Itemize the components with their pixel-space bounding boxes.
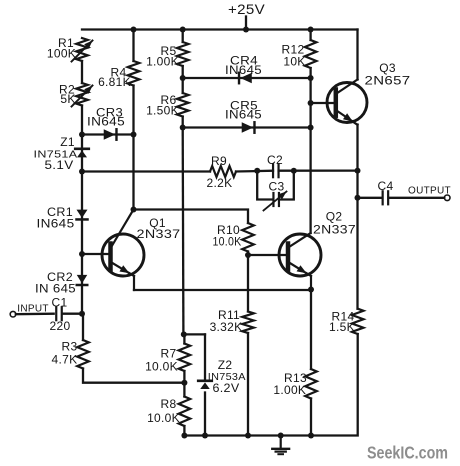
wire R13 to bottom rail	[310, 399, 312, 436]
wire Z1 bottom to R9	[82, 170, 210, 172]
wire collector node to R10	[134, 210, 249, 224]
resistor R6	[177, 93, 189, 117]
resistor R12	[305, 40, 317, 68]
wire rail to R5	[182, 30, 184, 43]
transistor Q3	[327, 80, 367, 125]
wire emitter node to R13	[310, 290, 312, 370]
label C2	[267, 153, 283, 167]
resistor R7	[179, 344, 191, 372]
node junction R3/R7/R8	[181, 380, 187, 386]
svg-text:IN645: IN645	[225, 108, 262, 122]
resistor R1 (variable)	[72, 38, 93, 62]
label Q3 type 2N657	[365, 61, 411, 88]
capacitor C3 (variable)	[264, 192, 287, 211]
resistor R9	[210, 166, 236, 177]
wire C4 to output terminal	[389, 197, 445, 199]
wire R12 to Q2 collector	[309, 68, 311, 233]
node junction C2 right	[291, 168, 297, 174]
node junction R13 bottom	[308, 433, 314, 439]
node junction R5 top	[180, 27, 186, 33]
label CR2 value IN645	[35, 270, 76, 296]
resistor R8	[179, 397, 191, 427]
wire Z1 branch	[81, 135, 83, 172]
resistor R3	[77, 340, 89, 369]
svg-text:2N337: 2N337	[313, 223, 356, 237]
terminal OUTPUT	[444, 195, 450, 201]
resistor R10	[242, 223, 254, 252]
wire R8 to bottom rail	[183, 426, 185, 436]
wire Q3 base	[311, 102, 336, 104]
wire Z2 branch down	[204, 334, 206, 380]
diode CR2	[77, 275, 88, 285]
wire C2 to Q3 emitter column	[279, 169, 358, 171]
svg-text:Z2: Z2	[218, 358, 233, 372]
wire R7 top lead	[183, 334, 185, 343]
label R6 value 1.50K	[146, 93, 179, 118]
wire R14 to bottom rail corner	[311, 334, 358, 436]
svg-text:C2: C2	[267, 153, 283, 167]
wire CR4 row	[183, 77, 311, 79]
svg-text:3.32K: 3.32K	[210, 320, 243, 334]
svg-text:6.81K: 6.81K	[98, 75, 131, 89]
wire CR3 node to collector node	[132, 135, 134, 210]
svg-text:6.2V: 6.2V	[213, 381, 240, 395]
diode CR5	[242, 122, 255, 133]
label Z2 value 1N753A 6.2V	[208, 358, 246, 395]
node junction emitters	[308, 287, 314, 293]
node junction Q1 collector	[131, 207, 137, 213]
node junction R12 top	[308, 27, 314, 33]
label R4 value 6.81K	[98, 66, 131, 90]
node junction Q1 base	[79, 251, 85, 257]
label R2 value 5K	[59, 83, 76, 107]
label Q1 type 2N337	[137, 216, 181, 241]
label Z1 value 1N751A 5.1V	[34, 135, 78, 172]
wire R10 to Q2 base node	[247, 252, 249, 256]
node junction CR5 left	[180, 125, 186, 131]
wire R2 to CR3 node	[81, 106, 83, 135]
watermark SeekIC.com	[367, 443, 448, 463]
node junction R8 bottom	[181, 433, 187, 439]
wire C3 right stub	[279, 171, 293, 200]
label R12 value 10K	[282, 43, 306, 69]
node junction Z1 bottom	[79, 169, 85, 175]
resistor R11	[242, 312, 254, 334]
node junction R11 bottom	[245, 433, 251, 439]
label R5 value 1.00K	[146, 44, 179, 69]
svg-text:Q2: Q2	[326, 210, 343, 224]
node junction CR4 left	[180, 75, 186, 81]
svg-text:Z1: Z1	[60, 135, 75, 149]
label R8 value 10.0K	[147, 397, 180, 425]
wire R9 to C2	[236, 170, 273, 173]
label CR3 value IN645	[87, 106, 125, 129]
label C4	[378, 179, 394, 193]
resistor R14	[352, 309, 364, 334]
ground	[272, 436, 289, 455]
wire CR1 branch	[81, 171, 83, 254]
label R11 value 3.32K	[210, 308, 243, 334]
wire output tap to C4	[358, 197, 383, 199]
wire top supply rail	[82, 28, 358, 30]
wire Q2 base node down to R11	[247, 255, 249, 312]
svg-text:1.5K: 1.5K	[329, 320, 355, 334]
transistor Q1	[102, 210, 144, 291]
svg-text:2.2K: 2.2K	[207, 176, 233, 190]
label Q2 type 2N337	[313, 210, 356, 237]
node junction feedback net	[355, 168, 361, 174]
zener Z1	[75, 149, 89, 158]
wire bottom rail	[184, 434, 311, 436]
wire R3 bottom to R7/R8 node	[83, 369, 184, 383]
svg-text:R3: R3	[62, 340, 78, 354]
net +25V label	[228, 2, 265, 17]
node junction C2 left	[254, 168, 260, 174]
svg-text:220: 220	[50, 319, 71, 333]
svg-text:IN 645: IN 645	[35, 282, 76, 296]
label R1 value 100K	[47, 36, 76, 61]
wire R1-R2	[81, 61, 83, 83]
wire rail to R12	[309, 30, 311, 41]
resistor R2 (variable)	[72, 83, 93, 107]
node junction ground tap	[278, 433, 284, 439]
svg-text:+25V: +25V	[228, 2, 265, 17]
wire R11 to bottom rail	[247, 333, 249, 436]
wire R4 to CR3 node	[132, 86, 134, 135]
svg-text:10K: 10K	[283, 55, 305, 69]
label CR4 value IN645	[225, 54, 262, 78]
label R13 value 1.00K	[273, 371, 307, 397]
wire Z2 to bottom rail	[204, 393, 206, 436]
svg-text:IN645: IN645	[225, 63, 262, 77]
wire CR5 row	[183, 126, 311, 128]
label R10 value 10.0K	[213, 223, 242, 249]
node junction CR3 left	[79, 132, 85, 138]
svg-text:C3: C3	[269, 180, 285, 194]
label R3 value 4.7K	[52, 340, 78, 367]
wire Q1 emitter to Q2 emitter	[134, 289, 311, 291]
node junction CR4 right	[308, 75, 314, 81]
svg-text:1.00K: 1.00K	[146, 55, 179, 69]
node junction Q3 base	[308, 100, 314, 106]
capacitor C4	[383, 191, 389, 204]
label INPUT	[17, 304, 49, 315]
node junction R4 top	[131, 27, 137, 33]
wire Q2 base	[248, 254, 288, 256]
svg-text:4.7K: 4.7K	[52, 353, 78, 367]
wire rail to R4	[132, 30, 134, 62]
node junction +25V	[243, 27, 249, 33]
wire CR2 branch	[81, 254, 83, 314]
wire R5 to R6 (through CR4 node)	[182, 66, 184, 93]
svg-text:R8: R8	[161, 397, 177, 411]
node junction input	[79, 311, 85, 317]
node junction Z2 bottom	[202, 433, 208, 439]
svg-text:R7: R7	[161, 347, 177, 361]
wire input terminal to C1	[16, 313, 54, 316]
terminal INPUT	[10, 311, 16, 317]
capacitor C1	[56, 307, 62, 320]
label CR1 value IN645	[37, 205, 75, 231]
wire R7 node to Z2 branch	[183, 333, 205, 335]
label R9 value 2.2K	[207, 154, 233, 190]
wire R6 to CR5 node	[182, 117, 184, 128]
svg-text:IN645: IN645	[87, 115, 125, 129]
label R14 value 1.5K	[329, 310, 355, 335]
wire C1 to input node	[62, 313, 82, 315]
wire C3 left stub	[257, 171, 273, 200]
capacitor C2	[273, 164, 279, 177]
svg-text:C1: C1	[52, 296, 68, 310]
wire Q3 emitter down to R14	[356, 125, 358, 309]
svg-text:1.00K: 1.00K	[273, 383, 306, 397]
label C3	[269, 180, 285, 194]
svg-text:10.0K: 10.0K	[147, 411, 180, 425]
svg-text:5K: 5K	[60, 92, 75, 106]
svg-text:5.1V: 5.1V	[45, 158, 74, 172]
zener Z2	[198, 381, 212, 389]
node junction Q2 base	[245, 252, 251, 258]
svg-text:IN645: IN645	[37, 217, 75, 231]
node junction CR3 right	[131, 132, 137, 138]
label C1 value 220	[50, 296, 71, 334]
label CR5 value IN645	[225, 99, 262, 122]
diode CR1	[77, 210, 88, 220]
resistor R5	[177, 42, 189, 66]
transistor Q2	[279, 233, 321, 290]
svg-text:10.0K: 10.0K	[145, 360, 178, 374]
svg-text:C4: C4	[378, 179, 394, 193]
svg-text:SeekIC.com: SeekIC.com	[367, 443, 448, 463]
wire R7 to R8	[183, 371, 185, 397]
wire CR5 node down to R7 node	[182, 128, 185, 335]
wire CR3 row	[82, 133, 134, 135]
label R7 value 10.0K	[145, 347, 178, 374]
svg-text:2N657: 2N657	[365, 74, 411, 88]
resistor R13	[305, 369, 317, 399]
label OUTPUT	[408, 186, 451, 197]
svg-text:2N337: 2N337	[137, 227, 181, 241]
wire Q1 base	[82, 253, 111, 255]
node junction C4 tap	[355, 195, 361, 201]
svg-text:100K: 100K	[47, 47, 76, 61]
svg-text:10.0K: 10.0K	[213, 235, 242, 249]
wire rail to Q3 collector	[356, 30, 358, 80]
svg-text:OUTPUT: OUTPUT	[408, 186, 451, 197]
node junction R7 top	[181, 331, 187, 337]
wire +25V stub	[245, 17, 247, 30]
resistor R4	[128, 61, 140, 86]
svg-text:1.50K: 1.50K	[146, 104, 179, 118]
node junction CR5 right	[308, 125, 314, 131]
svg-text:R9: R9	[211, 154, 227, 168]
wire input node to R3	[82, 314, 84, 340]
diode CR3	[104, 129, 117, 140]
diode CR4	[239, 73, 252, 84]
